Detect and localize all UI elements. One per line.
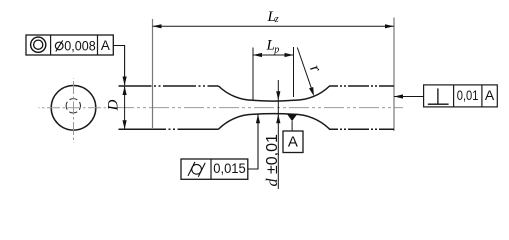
svg-text:0,015: 0,015 bbox=[213, 160, 246, 176]
svg-text:0,01: 0,01 bbox=[457, 87, 479, 103]
svg-text:D: D bbox=[106, 100, 122, 112]
svg-text:z: z bbox=[274, 14, 279, 25]
svg-text:0,008: 0,008 bbox=[64, 38, 95, 53]
svg-text:p: p bbox=[273, 44, 279, 55]
svg-text:A: A bbox=[485, 87, 495, 103]
svg-text:d ±0,01: d ±0,01 bbox=[264, 134, 281, 186]
svg-text:A: A bbox=[288, 134, 298, 151]
svg-text:A: A bbox=[101, 38, 110, 53]
